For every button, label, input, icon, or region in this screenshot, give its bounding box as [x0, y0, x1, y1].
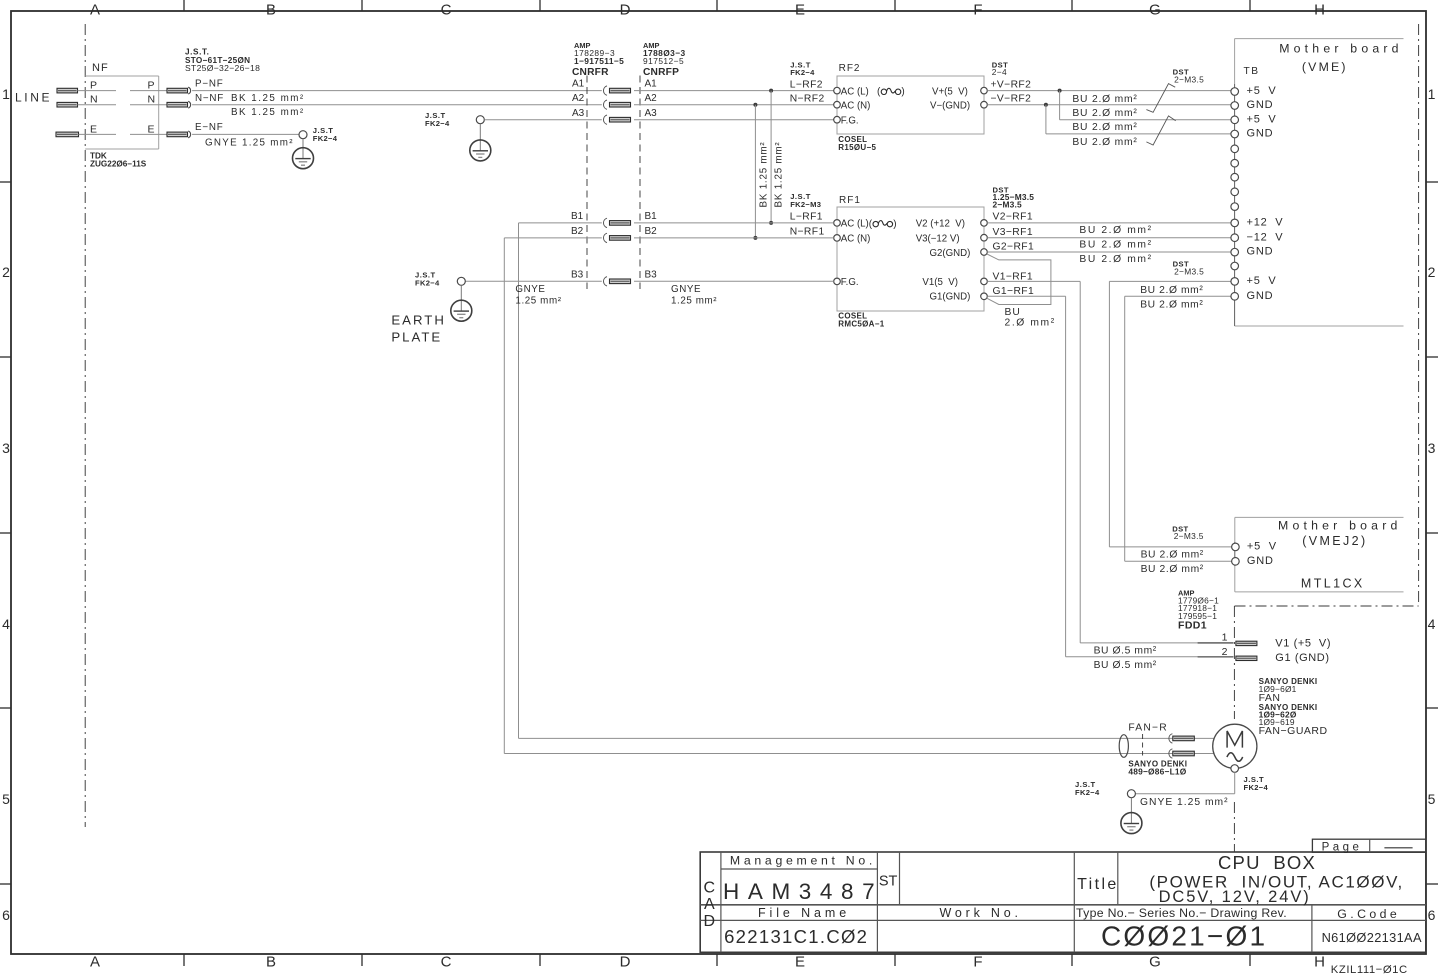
RF1 pin V3(-12V): [916, 234, 988, 245]
svg-text:Work No.: Work No.: [940, 906, 1022, 920]
TB terminal label GND at y136: [1247, 128, 1274, 140]
wire label BU 0.5 (FDD 2): [1094, 660, 1157, 671]
svg-text:KZIL111−Ø1C: KZIL111−Ø1C: [1331, 964, 1408, 974]
wire label BU 2.0 (TB group 1): [1072, 94, 1137, 105]
svg-text:BK 1.25 mm²: BK 1.25 mm²: [758, 142, 769, 208]
svg-text:+5 V: +5 V: [1247, 275, 1277, 287]
svg-text:E: E: [795, 2, 805, 19]
svg-text:Page: Page: [1322, 841, 1363, 853]
svg-text:BK 1.25 mm²: BK 1.25 mm²: [231, 93, 305, 104]
svg-text:1: 1: [1222, 631, 1228, 643]
TB terminal label GND at y298: [1247, 290, 1274, 302]
contact B1: [603, 218, 630, 227]
svg-text:Type No.− Series No.− Drawing: Type No.− Series No.− Drawing Rev.: [1076, 906, 1287, 920]
wire label BU 2.0 (TB group 4): [1072, 137, 1137, 148]
svg-text:D: D: [620, 954, 631, 971]
svg-text:3: 3: [2, 440, 10, 456]
svg-text:+12 V: +12 V: [1247, 217, 1284, 229]
crimp terminal N-NF: [167, 101, 191, 108]
svg-text:FDD1: FDD1: [1178, 619, 1207, 631]
svg-text:V3(−12 V): V3(−12 V): [916, 234, 960, 245]
earth terminal E3 (earth plate): [415, 270, 472, 321]
wire B1 / L-RF1: [519, 223, 834, 739]
svg-text:E−NF: E−NF: [195, 122, 224, 133]
svg-text:6: 6: [1428, 907, 1436, 923]
wire A2 to RF2 AC(N): [634, 104, 834, 106]
svg-text:DC5V, 12V, 24V): DC5V, 12V, 24V): [1159, 888, 1311, 906]
svg-text:G1 (GND): G1 (GND): [1275, 652, 1329, 664]
wire label BU 2.0 (tie loop): [1005, 307, 1056, 329]
svg-text:A: A: [90, 2, 100, 19]
node -V-RF2 label: [991, 94, 1032, 105]
cable bundle oval: [1119, 735, 1128, 758]
svg-text:TB: TB: [1244, 66, 1260, 77]
fan enclosure boundary dash-dot: [1234, 24, 1418, 852]
svg-text:C: C: [704, 879, 716, 896]
wire label BU 2.0 (+12V group 1): [1079, 225, 1152, 236]
junction -V branch: [1044, 103, 1048, 134]
RF1 pin AC(L): [834, 219, 897, 230]
svg-text:CNRFP: CNRFP: [643, 67, 679, 78]
svg-text:5: 5: [2, 791, 10, 807]
wire V2-RF1 to TB +12V: [987, 222, 1231, 224]
TB terminal label +5 V at y94: [1247, 85, 1277, 97]
TB terminal label GND at y254: [1247, 246, 1274, 258]
wire N through NF: [78, 104, 168, 106]
svg-text:2: 2: [2, 264, 10, 280]
fan wire upper: [519, 737, 1215, 739]
svg-text:G2−RF1: G2−RF1: [993, 241, 1035, 252]
svg-text:D: D: [620, 2, 631, 19]
wire label BU 2.0 (+5V lower 2): [1140, 300, 1203, 311]
LINE input label: [15, 91, 52, 105]
wire label BU 2.0 (TB group 2): [1072, 108, 1137, 119]
svg-text:Management No.: Management No.: [730, 853, 876, 867]
VMEJ2 terminal +5V: [1232, 541, 1277, 553]
fan connector label SANYO DENKI 489-086-L10: [1128, 759, 1187, 776]
svg-text:File Name: File Name: [758, 906, 850, 920]
svg-text:V1 (+5 V): V1 (+5 V): [1275, 638, 1331, 650]
svg-text:): ): [901, 87, 904, 98]
svg-text:A: A: [704, 896, 715, 913]
svg-text:C: C: [441, 954, 452, 971]
VMEJ2 terminal GND: [1232, 555, 1274, 567]
FDD1 G1 label: [1275, 652, 1329, 664]
svg-text:L−RF1: L−RF1: [790, 212, 823, 223]
svg-text:622131C1.CØ2: 622131C1.CØ2: [724, 926, 868, 947]
svg-text:CØØ21−Ø1: CØØ21−Ø1: [1101, 921, 1267, 952]
svg-text:BU 2.Ø mm²: BU 2.Ø mm²: [1140, 300, 1203, 311]
node E-NF label: [195, 122, 224, 133]
terminal label DST 2-M3.5 (TB top): [1173, 68, 1205, 85]
junction +V branch: [1058, 89, 1062, 120]
connector J.S.T STO-61T-250N label: [185, 48, 260, 74]
wire N-NF to CNRFR A2: [192, 104, 602, 106]
svg-text:BU 2.Ø mm²: BU 2.Ø mm²: [1141, 564, 1204, 575]
svg-text:E: E: [90, 123, 97, 135]
svg-text:BU 2.Ø mm²: BU 2.Ø mm²: [1079, 225, 1152, 236]
svg-text:2−M3.5: 2−M3.5: [993, 200, 1023, 210]
svg-text:G: G: [1149, 2, 1161, 19]
svg-text:(: (: [877, 87, 881, 98]
svg-text:GND: GND: [1247, 246, 1274, 258]
svg-text:H: H: [1314, 2, 1325, 19]
wire +V-RF2 to TB +5V: [987, 90, 1231, 92]
svg-text:G: G: [1149, 954, 1161, 971]
svg-text:2: 2: [1428, 264, 1436, 280]
node +V-RF2 label: [991, 79, 1032, 90]
wire TB +5V (lower) branch: [1109, 281, 1231, 547]
wire P through NF: [78, 90, 168, 92]
svg-text:GNYE 1.25 mm²: GNYE 1.25 mm²: [205, 137, 294, 148]
earth terminal E1 J.S.T FK2-4: [293, 126, 338, 169]
svg-text:BU 2.Ø mm²: BU 2.Ø mm²: [1079, 240, 1152, 251]
wire B3 / F.G. RF1: [465, 280, 833, 282]
svg-text:3: 3: [1428, 440, 1436, 456]
svg-text:D: D: [704, 913, 716, 930]
svg-text:B3: B3: [571, 270, 584, 281]
svg-text:A1: A1: [572, 79, 585, 90]
svg-text:R15ØU−5: R15ØU−5: [838, 143, 876, 152]
wire G2-G1 tie loop: [987, 254, 1051, 305]
wire G2-RF1 to TB GND: [987, 251, 1231, 253]
contact A3: [603, 115, 630, 124]
pin A3 labels: [572, 108, 657, 119]
EARTH PLATE label: [391, 313, 445, 345]
earth terminal E4 J.S.T FK2-4 (fan): [1075, 780, 1142, 834]
svg-text:V2−RF1: V2−RF1: [993, 212, 1033, 223]
TB terminal label GND at y108: [1247, 99, 1274, 111]
pin B3 labels: [571, 270, 657, 281]
svg-text:GND: GND: [1247, 128, 1274, 140]
fan connector dashed boundary: [1142, 734, 1144, 756]
contact A1: [603, 86, 630, 95]
svg-text:Title: Title: [1077, 876, 1119, 893]
svg-text:G1(GND): G1(GND): [930, 292, 971, 303]
svg-text:FK2−M3: FK2−M3: [790, 200, 821, 209]
pin B1 labels: [571, 211, 657, 222]
motor M (fan): [1213, 724, 1257, 768]
wire B2 / N-RF1: [504, 238, 833, 754]
svg-text:PLATE: PLATE: [391, 329, 442, 344]
node V2-RF1 label: [993, 212, 1033, 223]
terminal label DST 2-M3.5 (mid): [1173, 260, 1205, 277]
power supply RF2 (COSEL R150U-5): [837, 63, 984, 152]
node V3-RF1 label: [993, 227, 1033, 238]
pin A2 labels: [572, 93, 657, 104]
svg-text:BU 2.Ø mm²: BU 2.Ø mm²: [1072, 108, 1137, 119]
node P-NF label: [195, 78, 224, 89]
svg-text:2.Ø mm²: 2.Ø mm²: [1005, 317, 1056, 328]
fan labels SANYO DENKI 109-601 FAN: [1259, 677, 1328, 737]
RF2 pin AC(N): [834, 100, 871, 111]
svg-text:A3: A3: [572, 108, 585, 119]
svg-text:F.G.: F.G.: [841, 115, 859, 126]
svg-text:ST: ST: [879, 874, 898, 890]
svg-text:RF2: RF2: [839, 63, 861, 74]
svg-text:−12 V: −12 V: [1247, 231, 1284, 243]
svg-text:H: H: [1314, 954, 1325, 971]
FDD1 V1 label: [1275, 638, 1331, 650]
svg-text:6: 6: [2, 907, 10, 923]
svg-text:N61ØØ22131AA: N61ØØ22131AA: [1322, 930, 1422, 945]
svg-text:AC (N): AC (N): [841, 100, 871, 111]
svg-text:P−NF: P−NF: [195, 78, 224, 89]
wire BK 1.25 label 2: [231, 107, 305, 118]
svg-text:EARTH: EARTH: [391, 313, 445, 328]
fan contact lower: [1169, 749, 1194, 758]
svg-text:GND: GND: [1247, 99, 1274, 111]
RF1 pin AC(N): [834, 234, 871, 245]
svg-text:B3: B3: [645, 270, 658, 281]
svg-text:BU 2.Ø mm²: BU 2.Ø mm²: [1072, 137, 1137, 148]
svg-text:A3: A3: [645, 108, 658, 119]
svg-text:GNYE: GNYE: [671, 284, 701, 295]
LINE input terminal N: [57, 102, 78, 107]
svg-text:1.25 mm²: 1.25 mm²: [671, 295, 717, 306]
svg-text:A1: A1: [645, 79, 658, 90]
svg-text:4: 4: [1428, 616, 1436, 632]
svg-text:N−RF1: N−RF1: [790, 226, 825, 237]
wire -V-RF2 to TB GND: [987, 104, 1231, 106]
svg-text:P: P: [148, 80, 155, 92]
svg-text:FAN−R: FAN−R: [1128, 723, 1167, 734]
svg-text:+5 V: +5 V: [1247, 113, 1277, 125]
svg-text:AC (L): AC (L): [841, 86, 869, 97]
svg-text:FAN−GUARD: FAN−GUARD: [1259, 725, 1328, 737]
svg-text:BU 2.Ø mm²: BU 2.Ø mm²: [1072, 122, 1137, 133]
svg-text:FK2−4: FK2−4: [790, 68, 815, 77]
node N-NF label: [195, 93, 224, 104]
svg-text:): ): [893, 219, 896, 230]
svg-text:B1: B1: [571, 211, 584, 222]
pin A1 labels: [572, 79, 657, 90]
svg-text:Mother board: Mother board: [1279, 41, 1403, 55]
wire label BU 2.0 (+12V group 2): [1079, 240, 1152, 251]
svg-text:FK2−4: FK2−4: [425, 119, 450, 128]
svg-text:A2: A2: [645, 93, 658, 104]
svg-text:BU 2.Ø mm²: BU 2.Ø mm²: [1072, 94, 1137, 105]
wire G1-RF1 branch: [987, 296, 1233, 657]
contact A2: [603, 100, 630, 109]
crimp terminal P-NF: [167, 87, 191, 94]
wire label GNYE 1.25 (B3 right): [671, 284, 717, 306]
wire label BU 2.0 (+5V lower 1): [1140, 285, 1203, 296]
contact B2: [603, 233, 630, 242]
wire V3-RF1 to TB -12V: [987, 237, 1231, 239]
TB terminal label +5 V at y284: [1247, 275, 1277, 287]
svg-text:B1: B1: [645, 211, 658, 222]
svg-text:FK2−4: FK2−4: [1075, 788, 1100, 797]
RF2 pin V+(5V): [932, 86, 987, 97]
svg-text:AC (L): AC (L): [841, 219, 869, 230]
RF1 pin V1(5V): [922, 277, 987, 288]
svg-text:N−RF2: N−RF2: [790, 94, 825, 105]
svg-text:V2 (+12 V): V2 (+12 V): [916, 219, 965, 230]
terminal block TB: [1231, 66, 1260, 300]
svg-text:BU 2.Ø mm²: BU 2.Ø mm²: [1079, 254, 1152, 265]
contact B3: [603, 277, 630, 286]
node L-RF1 label: [790, 212, 823, 223]
connector FDD1 (AMP 177906-1/177918-1/179595-1): [1178, 588, 1219, 631]
svg-text:RMC5ØA−1: RMC5ØA−1: [838, 319, 884, 328]
svg-text:BK 1.25 mm²: BK 1.25 mm²: [231, 107, 305, 118]
svg-text:B: B: [266, 2, 276, 19]
junction L-RF2 to L-RF1 tie: [769, 89, 773, 225]
TB terminal label +5 V at y122: [1247, 113, 1277, 125]
svg-text:BU 2.Ø mm²: BU 2.Ø mm²: [1141, 550, 1204, 561]
mother board (VMEJ2) box MTL1CX: [1235, 517, 1404, 592]
svg-text:GND: GND: [1247, 290, 1274, 302]
svg-text:+5 V: +5 V: [1247, 541, 1277, 553]
LINE input terminal P: [57, 88, 78, 93]
svg-text:F: F: [973, 2, 982, 19]
RF1 pin G1(GND): [930, 292, 988, 303]
svg-text:FK2−4: FK2−4: [415, 278, 440, 287]
wire V1-RF1 branch: [987, 281, 1233, 643]
title block: [700, 852, 1426, 953]
svg-text:BU 2.Ø mm²: BU 2.Ø mm²: [1140, 285, 1203, 296]
svg-text:B: B: [266, 954, 276, 971]
svg-text:AC (N): AC (N): [841, 234, 871, 245]
node N-RF1 label: [790, 226, 825, 237]
motor J.S.T FK2-4 label: [1244, 775, 1269, 792]
wire BK 1.25 label 1: [231, 93, 305, 104]
svg-text:(: (: [869, 219, 873, 230]
svg-text:F: F: [973, 954, 982, 971]
svg-text:E: E: [795, 954, 805, 971]
svg-text:489−Ø86−L1Ø: 489−Ø86−L1Ø: [1128, 766, 1186, 776]
svg-text:V1(5 V): V1(5 V): [922, 277, 958, 288]
terminal label DST 2-M3.5 (VMEJ2): [1172, 524, 1204, 541]
RF2 pin AC(L): [834, 86, 905, 97]
RF1 pin V2(+12V): [916, 219, 988, 230]
wire label GNYE 1.25 (B3 left): [515, 284, 561, 306]
svg-text:N: N: [148, 94, 156, 106]
svg-text:917512−5: 917512−5: [643, 56, 684, 66]
pin B2 labels: [571, 226, 657, 237]
svg-text:P: P: [90, 80, 97, 92]
RF2 connector label J.S.T FK2-4: [790, 60, 815, 77]
svg-text:V3−RF1: V3−RF1: [993, 227, 1033, 238]
wire GNYE 1.25 label: [205, 137, 294, 148]
crimp terminal E-NF: [167, 131, 191, 138]
wire GND (2) to TB: [1046, 133, 1231, 135]
sheet code KZIL111-01C: [1331, 964, 1408, 974]
node N-RF2 label: [790, 94, 825, 105]
svg-text:HAM3487: HAM3487: [723, 879, 883, 904]
svg-text:NF: NF: [92, 62, 109, 74]
vertical wire label BK 1.25 (2): [773, 142, 784, 208]
connector CNRFP (AMP 178803-3 / 917512-5): [640, 41, 686, 289]
RF2 pin V-(GND): [930, 100, 987, 111]
svg-text:BU: BU: [1005, 307, 1021, 318]
svg-text:L−RF2: L−RF2: [790, 79, 823, 90]
svg-text:1: 1: [2, 86, 10, 102]
svg-text:G1−RF1: G1−RF1: [993, 286, 1035, 297]
svg-text:GNYE 1.25 mm²: GNYE 1.25 mm²: [1140, 797, 1229, 808]
svg-text:N−NF: N−NF: [195, 93, 224, 104]
noise filter NF (TDK ZUG2206-11S): [85, 62, 159, 169]
RF1 connector label J.S.T FK2-M3: [790, 192, 821, 209]
svg-text:V+(5 V): V+(5 V): [932, 86, 968, 97]
FDD1 pin 2: [1198, 646, 1257, 661]
svg-text:(VMEJ2): (VMEJ2): [1302, 534, 1367, 548]
svg-text:B2: B2: [571, 226, 584, 237]
wire E-NF to earth: [192, 133, 299, 135]
fan contact upper: [1169, 734, 1194, 743]
svg-text:FK2−4: FK2−4: [313, 134, 338, 143]
RF1 pin G2(GND): [930, 248, 988, 259]
svg-text:2−M3.5: 2−M3.5: [1174, 266, 1204, 276]
wire label BU 2.0 (VMEJ2 2): [1141, 564, 1204, 575]
mother board (VME) box: [1235, 39, 1404, 326]
svg-text:RF1: RF1: [839, 195, 861, 206]
svg-text:Mother board: Mother board: [1278, 518, 1402, 532]
svg-text:1: 1: [1428, 86, 1436, 102]
svg-text:2−M3.5: 2−M3.5: [1174, 74, 1204, 84]
svg-text:GNYE: GNYE: [515, 284, 545, 295]
wire A3 / F.G.: [484, 119, 833, 121]
RF2 pin F.G.: [834, 115, 859, 126]
cable slash mark 1: [1146, 84, 1175, 113]
chassis boundary dash-dot line (left): [84, 24, 86, 827]
svg-text:V−(GND): V−(GND): [930, 100, 970, 111]
svg-text:ST25Ø−32−26−18: ST25Ø−32−26−18: [185, 63, 260, 73]
svg-text:2−4: 2−4: [992, 67, 1007, 77]
node G2-RF1 label: [993, 241, 1035, 252]
cable slash mark 2: [1146, 116, 1175, 145]
wire label BU 2.0 (TB group 3): [1072, 122, 1137, 133]
svg-text:2−M3.5: 2−M3.5: [1174, 531, 1204, 541]
svg-text:CNRFR: CNRFR: [572, 67, 609, 78]
svg-text:1.25 mm²: 1.25 mm²: [515, 295, 561, 306]
wire P-NF to CNRFR A1: [192, 90, 602, 92]
svg-text:FK2−4: FK2−4: [1244, 783, 1269, 792]
wire label GNYE 1.25 (fan earth): [1140, 797, 1229, 808]
svg-text:B2: B2: [645, 226, 658, 237]
terminal label DST 2-4: [992, 60, 1008, 77]
svg-text:E: E: [148, 123, 155, 135]
wire label BU 2.0 (VMEJ2 1): [1141, 550, 1204, 561]
power supply RF1 (COSEL RMC50A-1): [837, 195, 984, 328]
node V1-RF1 label: [993, 271, 1033, 282]
connector CNRFR (AMP 178289-3 / 1-917511-5): [572, 41, 624, 289]
node G1-RF1 label: [993, 286, 1035, 297]
fan wire lower: [504, 753, 1214, 755]
svg-text:A2: A2: [572, 93, 585, 104]
wire E through NF: [79, 133, 168, 135]
FDD1 pin 1: [1198, 631, 1257, 645]
svg-text:5: 5: [1428, 791, 1436, 807]
svg-text:G.Code: G.Code: [1337, 907, 1400, 921]
svg-text:CPU BOX: CPU BOX: [1218, 852, 1316, 873]
svg-text:ZUG22Ø6−11S: ZUG22Ø6−11S: [90, 160, 147, 169]
RF1 pin F.G.: [834, 277, 859, 288]
svg-text:G2(GND): G2(GND): [930, 248, 971, 259]
svg-text:GND: GND: [1247, 555, 1274, 567]
node L-RF2 label: [790, 79, 823, 90]
svg-text:LINE: LINE: [15, 91, 52, 105]
TB terminal label +12 V at y225: [1247, 217, 1284, 229]
LINE input terminal E: [56, 132, 79, 137]
svg-text:+V−RF2: +V−RF2: [991, 79, 1032, 90]
motor earth wire: [1136, 772, 1235, 793]
svg-text:BU Ø.5 mm²: BU Ø.5 mm²: [1094, 645, 1157, 656]
svg-text:F.G.: F.G.: [841, 277, 859, 288]
junction N-RF2 to N-RF1 tie: [753, 103, 757, 240]
svg-text:+5 V: +5 V: [1247, 85, 1277, 97]
